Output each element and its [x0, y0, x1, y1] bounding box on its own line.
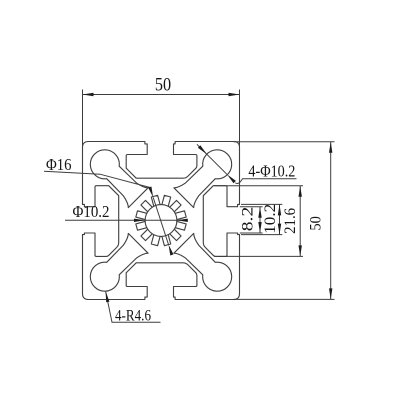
dim 8.2 bottom arrow [258, 222, 261, 233]
dim 10.2 bottom arrow [278, 224, 281, 235]
dim 4-phi10.2 leader landing [235, 179, 296, 184]
dim 21.6 bottom arrow [299, 245, 302, 256]
dim phi10.2 left arrow [134, 219, 145, 222]
left T-slot [83, 186, 119, 257]
svg-text:21.6: 21.6 [282, 208, 299, 234]
corner keyhole TR [174, 150, 232, 208]
dim 50 right top arrow [329, 142, 332, 153]
dim 50 right extension lines [234, 142, 335, 300]
dim 50 top extension lines [83, 90, 240, 149]
dim 50 top left arrow [83, 93, 94, 96]
dim 10.2 extension lines [241, 204, 282, 234]
top T-slot [126, 142, 197, 178]
dim 50 top right arrow [229, 93, 240, 96]
dim 21.6 extension lines [214, 186, 303, 257]
corner keyhole TL [90, 150, 148, 208]
dim phi16 upper arrow [148, 187, 153, 198]
svg-text:50: 50 [307, 216, 324, 231]
dim 21.6 top arrow [299, 186, 302, 197]
svg-text:4-Φ10.2: 4-Φ10.2 [248, 162, 295, 181]
centre bore circle [145, 205, 177, 237]
dim phi16 lower arrow [169, 245, 174, 256]
bottom T-slot [126, 263, 197, 299]
dim 50 top dimension line [83, 94, 240, 96]
dim phi16 diameter line [153, 198, 168, 245]
dim 50 right dimension line [330, 142, 332, 300]
corner keyhole BR [174, 233, 232, 291]
dim 21.6 dimension line [299, 186, 301, 257]
svg-text:Φ10.2: Φ10.2 [73, 202, 110, 221]
dim 8.2 top arrow [258, 207, 261, 218]
dim 4-R4.6 leader [106, 291, 161, 322]
dim phi16 leader [44, 171, 150, 187]
svg-text:10.2: 10.2 [262, 204, 279, 234]
dim 4-phi10.2 upper arrow [198, 145, 207, 154]
dim 50 right bottom arrow [329, 288, 332, 299]
right T-slot [203, 186, 239, 257]
dim 10.2 top arrow [278, 204, 281, 215]
dim 10.2 dimension line [279, 204, 281, 234]
svg-text:Φ16: Φ16 [46, 155, 72, 174]
svg-text:50: 50 [155, 75, 171, 96]
dim 8.2 dimension line [259, 207, 261, 233]
dim 4-phi10.2 diameter line [197, 144, 227, 174]
dim 4-R4.6 arrow [106, 291, 110, 302]
profile outline [83, 142, 240, 300]
svg-text:4-R4.6: 4-R4.6 [115, 307, 151, 324]
dim phi10.2 leader line [65, 219, 188, 221]
corner keyhole BL [90, 233, 148, 291]
dim phi10.2 right arrow [177, 219, 188, 222]
dim 8.2 extension lines [240, 207, 263, 233]
svg-text:8.2: 8.2 [240, 207, 257, 232]
dim 4-phi10.2 lower arrow [227, 174, 236, 183]
serration teeth [136, 195, 186, 245]
